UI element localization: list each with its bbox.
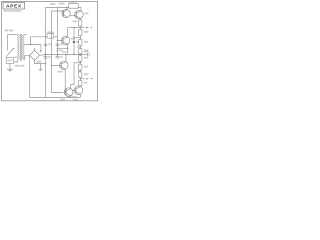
label R6: [84, 49, 89, 51]
wire bus terminal right: [80, 54, 87, 56]
label top left: [50, 3, 56, 5]
label below bus2 left: [60, 99, 65, 101]
page border frame: [1, 1, 97, 100]
transistor Q6: [64, 88, 73, 98]
wire Q3 emitter: [67, 44, 69, 54]
switch box K1: [6, 58, 13, 64]
transformer T1 primary winding: [18, 35, 20, 60]
wire AC drop to bridge: [40, 45, 42, 53]
resistor R8: [79, 64, 82, 70]
wire rail V+ left (x=45.5): [45, 8, 47, 98]
node bus rail45: [45, 54, 46, 55]
wire rail x57: [56, 11, 58, 56]
transistor Q2: [75, 10, 84, 19]
label + at bridge: [40, 50, 42, 52]
node feedback right: [67, 48, 68, 49]
wire Q3 collector: [67, 28, 69, 37]
ground stub on bridge bottom wire: [40, 64, 42, 69]
label C4: [60, 56, 63, 58]
wire tap4 left: [74, 62, 80, 64]
wire Q6 emitter to bus2 node: [70, 97, 71, 98]
transistor Q5: [52, 61, 69, 70]
node tap2: [80, 37, 81, 38]
label right of Q2: [84, 13, 88, 15]
node bus rail57: [57, 54, 58, 55]
label top mid: [58, 3, 64, 5]
resistor R7: [79, 56, 82, 62]
label under Q6: [72, 96, 77, 97]
resistor R4: [79, 29, 82, 35]
variac wiper arrow: [6, 49, 13, 57]
wire top rail right to Q2: [78, 8, 81, 11]
resistor R1 (link): [47, 34, 54, 38]
terminal arrow -: [86, 78, 89, 80]
label above mid terminal: [84, 51, 89, 53]
node stub: [57, 10, 58, 11]
node bus chain: [80, 54, 81, 55]
capacitor C4 below bus on rail57 stub: [56, 55, 58, 56]
wire tap1 left: [68, 27, 81, 29]
node tap6: [80, 78, 81, 79]
label under Q5: [57, 71, 63, 73]
capacitor C1 on rail45: [44, 44, 48, 46]
wire tap riser: [29, 37, 31, 45]
node Q3 base: [57, 40, 58, 41]
node tap1: [80, 27, 81, 28]
wire secondary bottom to bridge: [24, 55, 29, 60]
label BR1: [37, 61, 42, 63]
terminal arrow +: [86, 27, 89, 29]
label D1: [76, 41, 79, 43]
wire top rail: [46, 7, 69, 9]
node tap2 mid: [73, 37, 74, 38]
node bridge bottom to rail: [45, 63, 46, 64]
label 115VAC input: [5, 30, 9, 32]
label R1: [47, 32, 54, 34]
wire main bus: [40, 54, 81, 57]
label C2: [60, 43, 63, 45]
ground: [7, 69, 13, 72]
wire feedback y48: [57, 47, 67, 49]
wire stub top rail to base rail: [56, 8, 58, 12]
wire link rail right: [54, 36, 57, 38]
label under transformer: [15, 65, 19, 67]
wire tap3 stub: [77, 46, 81, 48]
transistor Q3: [57, 36, 69, 44]
capacitor C3 below bus on rail45: [44, 56, 48, 58]
wire bottom bus2: [30, 96, 81, 98]
wire secondary center tap: [24, 44, 41, 46]
label right of box K1: [14, 56, 17, 58]
wire sense line x74 lower: [71, 63, 74, 89]
resistor R9: [79, 72, 82, 78]
node tap5: [80, 70, 81, 71]
wire sense line x74 upper: [73, 28, 75, 55]
capacitor C2 on rail57: [56, 44, 60, 46]
wire box to ground: [9, 63, 11, 68]
node Q6 base junction: [65, 92, 66, 93]
wire primary top: [8, 34, 18, 36]
node bus q5col: [65, 54, 66, 55]
label above Q5 collector: [62, 51, 67, 53]
wire bridge bottom out: [35, 60, 46, 63]
label R8: [84, 66, 89, 68]
node tap4: [80, 62, 81, 63]
APEX logo: [3, 2, 25, 11]
wire Q5 emitter long: [64, 69, 66, 92]
node feedback left: [57, 48, 58, 49]
bridge rectifier BR1: [30, 50, 40, 60]
zener D1 on sense line: [73, 41, 75, 43]
wire tap6 terminal right: [80, 78, 84, 80]
svg-text:APEX: APEX: [6, 4, 22, 10]
resistor R5: [79, 40, 82, 46]
label R2: [69, 1, 77, 3]
label C1: [48, 43, 51, 45]
wire divider chain spine: [79, 18, 81, 86]
node tap3: [80, 46, 81, 47]
wire box to winding bottom: [14, 60, 18, 62]
wire Q5 collector: [65, 55, 67, 62]
node bus sense: [73, 54, 74, 55]
resistor R2 (top): [69, 3, 78, 8]
label R3: [73, 21, 78, 23]
transformer T1 core: [21, 34, 22, 61]
terminal bar mid: [86, 53, 89, 57]
transistor Q7: [73, 86, 83, 98]
transformer T1 secondary winding: [23, 35, 25, 60]
resistor R3: [79, 20, 82, 26]
wire bridge top stub: [34, 48, 36, 51]
wire tap1 terminal right: [80, 27, 84, 29]
label R9: [84, 73, 89, 75]
wire Q1 emitter to Q2 base: [70, 14, 76, 16]
node tap junction: [30, 44, 31, 45]
node Q1 collector to rail: [66, 7, 67, 8]
wire base rail (x=51.5): [52, 11, 64, 93]
resistor R6: [79, 49, 82, 54]
wire primary left: [7, 35, 9, 51]
transistor Q1: [62, 8, 70, 18]
wire bridge minus rail (left vertex down): [29, 55, 31, 97]
resistor R10: [79, 81, 82, 86]
label below bus2 right: [73, 99, 78, 101]
label R7: [84, 57, 89, 59]
node tap1 mid: [73, 27, 74, 28]
label C3: [48, 56, 51, 58]
node link to rail45: [45, 36, 46, 37]
wire secondary top stub: [24, 34, 26, 36]
label under feedback: [56, 50, 63, 52]
label R10: [84, 82, 87, 84]
label R4: [84, 31, 89, 33]
label R5: [84, 41, 89, 43]
node Q5 base: [51, 65, 52, 66]
wire tap5 stub: [77, 70, 80, 72]
wire tap2 left: [74, 37, 80, 39]
label right of Q3: [70, 38, 74, 40]
wire link rail: [30, 36, 47, 38]
